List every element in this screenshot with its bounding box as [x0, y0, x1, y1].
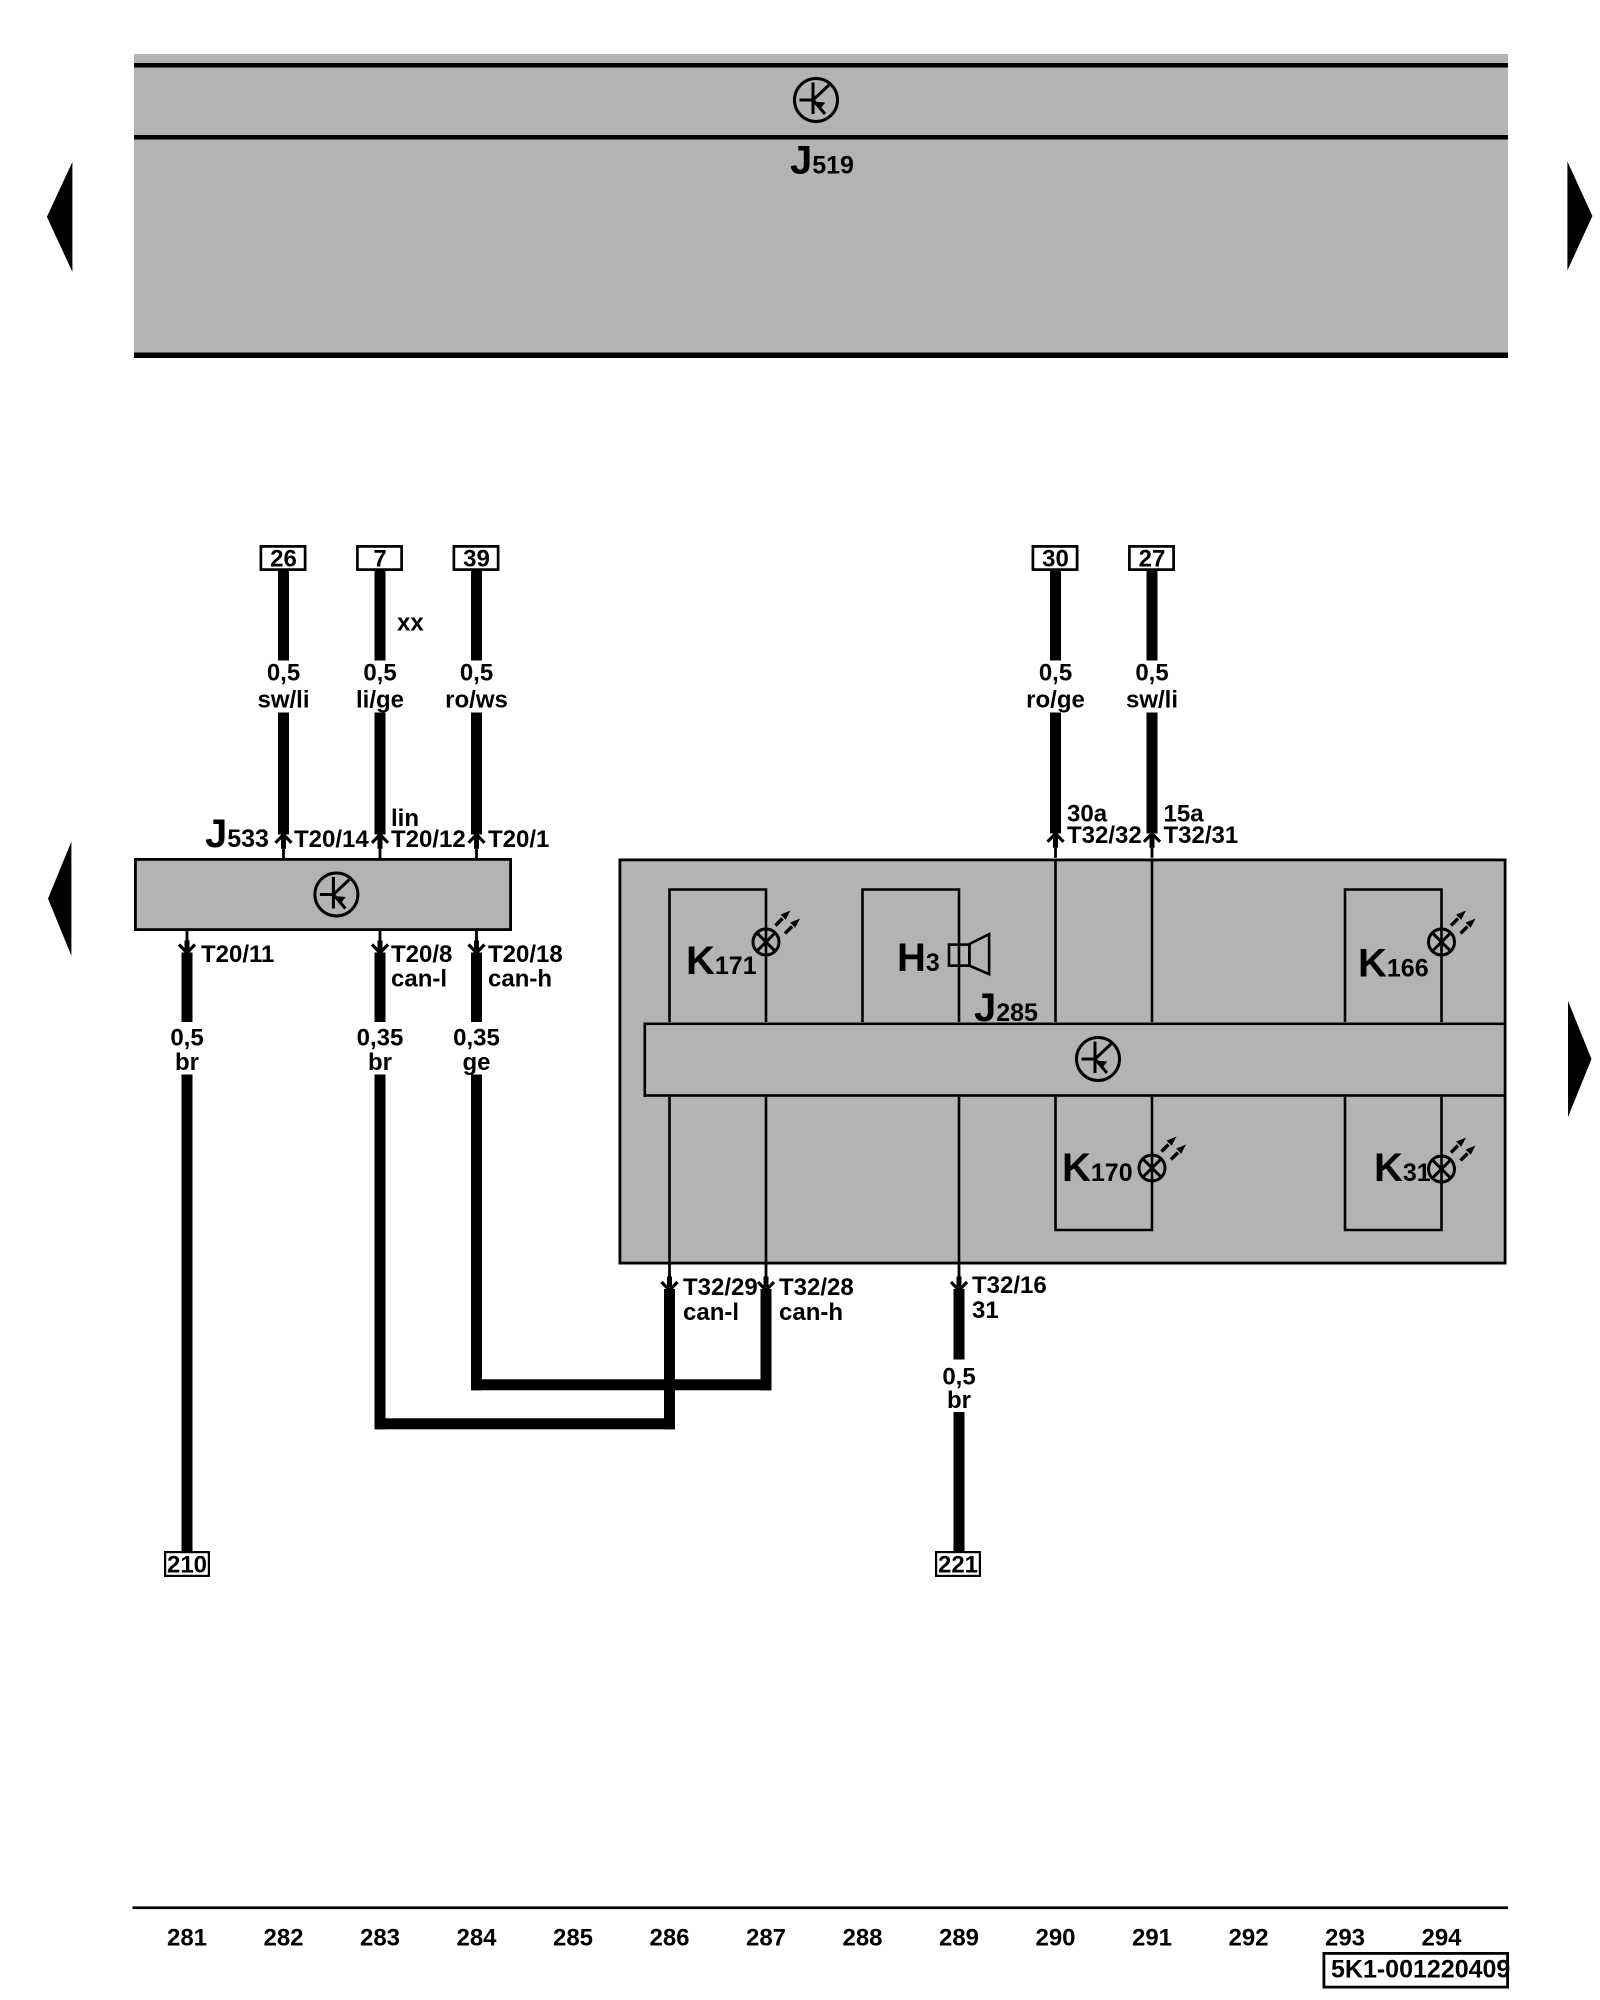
svg-text:282: 282 — [263, 1925, 303, 1952]
lamp K170 — [1139, 1137, 1186, 1182]
wire T32/16 upper segment — [954, 1289, 965, 1360]
control unit J533 body — [135, 859, 510, 929]
terminal box 26 — [261, 546, 305, 569]
J285 K symbol — [1077, 1038, 1120, 1081]
wire 27 upper segment — [1147, 571, 1158, 661]
wire from T32/31 inside J285 — [1151, 861, 1154, 1022]
J519 bottom border — [134, 353, 1508, 359]
svg-text:T32/28: T32/28 — [779, 1274, 854, 1301]
can-h horizontal run — [471, 1379, 772, 1390]
svg-text:288: 288 — [842, 1925, 882, 1952]
svg-text:27: 27 — [1139, 546, 1166, 573]
wire 39 upper segment — [471, 571, 482, 661]
wire 30 upper segment — [1050, 571, 1061, 661]
svg-text:0,5: 0,5 — [1135, 660, 1168, 687]
svg-text:292: 292 — [1228, 1925, 1268, 1952]
svg-text:0,5: 0,5 — [170, 1025, 203, 1052]
pin T32/29 — [662, 1265, 678, 1291]
J285 internal bus bar left edge — [644, 1023, 647, 1097]
pin T32/32 — [1048, 834, 1064, 858]
diagram id box — [1324, 1953, 1508, 1987]
svg-text:285: 285 — [553, 1925, 593, 1952]
svg-text:210: 210 — [167, 1552, 207, 1579]
wire T20/18 upper segment — [471, 953, 482, 1023]
wire 39 lower segment — [471, 713, 482, 835]
svg-text:br: br — [368, 1049, 392, 1076]
J285 internal bus bar bottom line — [644, 1094, 1507, 1097]
ground box 221 — [936, 1552, 980, 1576]
svg-text:T20/8: T20/8 — [391, 941, 452, 968]
page-continuation arrow mid-left — [48, 842, 71, 956]
control unit J519 body — [134, 54, 1508, 353]
svg-text:T20/18: T20/18 — [488, 941, 563, 968]
can-h riser to T32/28 — [761, 1289, 772, 1390]
svg-text:can-l: can-l — [683, 1299, 739, 1326]
svg-text:294: 294 — [1421, 1925, 1462, 1952]
terminal box 39 — [454, 546, 498, 569]
svg-text:ro/ge: ro/ge — [1026, 687, 1085, 714]
svg-text:J533: J533 — [205, 812, 269, 856]
page-continuation arrow mid-right — [1568, 1001, 1592, 1117]
pin T20/14 — [276, 835, 292, 859]
wire from T32/32 inside J285 — [1054, 861, 1057, 1022]
svg-text:0,5: 0,5 — [460, 660, 493, 687]
H3 frame — [863, 890, 960, 1023]
wire T20/8 can-l down segment — [375, 1075, 386, 1430]
wire T32/16 lower segment — [954, 1412, 965, 1551]
wire 7 lower segment — [375, 713, 386, 835]
K166 frame — [1345, 890, 1442, 1023]
svg-text:ge: ge — [462, 1049, 490, 1076]
pin T20/18 — [469, 931, 485, 953]
buzzer H3 symbol — [949, 945, 969, 966]
wire 7 upper segment — [375, 571, 386, 661]
svg-text:30: 30 — [1042, 546, 1069, 573]
page-continuation arrow top-right — [1567, 161, 1592, 270]
svg-text:0,5: 0,5 — [1039, 660, 1072, 687]
svg-text:290: 290 — [1035, 1925, 1075, 1952]
wire T20/11 upper segment — [182, 953, 193, 1023]
svg-text:291: 291 — [1132, 1925, 1172, 1952]
wire T20/11 long segment to 210 — [182, 1075, 193, 1552]
can-l riser to T32/29 — [664, 1289, 675, 1429]
svg-text:T20/12: T20/12 — [391, 826, 466, 853]
J533 K symbol — [315, 873, 358, 916]
svg-text:283: 283 — [360, 1925, 400, 1952]
svg-text:T20/11: T20/11 — [201, 941, 274, 968]
svg-text:T32/31: T32/31 — [1164, 822, 1239, 849]
wire 26 lower segment — [278, 713, 289, 835]
svg-text:can-h: can-h — [488, 966, 552, 993]
wire T20/18 can-h down segment — [471, 1075, 482, 1391]
wire T20/8 upper segment — [375, 953, 386, 1023]
ruler line — [133, 1906, 1509, 1909]
pin T20/11 — [179, 931, 195, 953]
svg-text:xx: xx — [397, 610, 424, 637]
svg-text:T20/14: T20/14 — [294, 826, 369, 853]
pin T20/1 — [469, 835, 485, 859]
svg-text:sw/li: sw/li — [257, 687, 309, 714]
svg-text:39: 39 — [463, 546, 490, 573]
svg-text:0,35: 0,35 — [453, 1025, 500, 1052]
svg-text:0,35: 0,35 — [357, 1025, 404, 1052]
control unit J285 body — [620, 860, 1505, 1263]
terminal box 27 — [1129, 546, 1173, 569]
svg-text:T32/16: T32/16 — [972, 1272, 1047, 1299]
K170 frame — [1056, 1097, 1153, 1230]
svg-text:can-h: can-h — [779, 1299, 843, 1326]
svg-text:31: 31 — [972, 1297, 999, 1324]
J285 internal bus bar top line — [644, 1023, 1507, 1026]
svg-text:li/ge: li/ge — [356, 687, 404, 714]
internal wire to T32/16 — [958, 1097, 961, 1263]
K171 frame — [670, 890, 767, 1023]
pin T20/8 — [372, 931, 388, 953]
svg-text:T32/32: T32/32 — [1067, 822, 1142, 849]
pin T20/12 — [372, 835, 388, 859]
ground box 210 — [165, 1552, 209, 1576]
svg-text:284: 284 — [456, 1925, 497, 1952]
pin T32/16 — [951, 1265, 967, 1291]
terminal box 30 — [1033, 546, 1077, 569]
terminal box 7 — [357, 546, 401, 569]
svg-text:T32/29: T32/29 — [683, 1274, 758, 1301]
svg-text:26: 26 — [270, 546, 297, 573]
K31 frame — [1345, 1097, 1442, 1230]
svg-text:sw/li: sw/li — [1126, 687, 1178, 714]
can-l horizontal run — [375, 1418, 676, 1429]
svg-text:0,5: 0,5 — [267, 660, 300, 687]
lamp K31 — [1429, 1138, 1476, 1183]
svg-text:287: 287 — [746, 1925, 786, 1952]
svg-text:br: br — [175, 1049, 199, 1076]
J519 inner line 2 — [134, 135, 1508, 140]
internal wire to T32/28 — [765, 1097, 768, 1263]
svg-text:289: 289 — [939, 1925, 979, 1952]
wire 26 upper segment — [278, 571, 289, 661]
pin T32/28 — [758, 1265, 774, 1291]
wire 30 lower segment — [1050, 713, 1061, 834]
svg-text:ro/ws: ro/ws — [445, 687, 508, 714]
wire 27 lower segment — [1147, 713, 1158, 834]
pin T32/31 — [1144, 834, 1160, 858]
lamp K171 — [753, 911, 800, 956]
internal wire to T32/29 — [668, 1097, 671, 1263]
J519 inner line 1 — [134, 63, 1508, 68]
svg-text:T20/1: T20/1 — [488, 826, 549, 853]
svg-text:293: 293 — [1325, 1925, 1365, 1952]
J519 K symbol — [795, 79, 838, 122]
svg-text:286: 286 — [649, 1925, 689, 1952]
svg-text:can-l: can-l — [391, 966, 447, 993]
svg-text:5K1-001220409: 5K1-001220409 — [1331, 1956, 1510, 1984]
page-continuation arrow top-left — [47, 162, 73, 272]
svg-text:7: 7 — [373, 546, 386, 573]
svg-text:221: 221 — [938, 1552, 978, 1579]
svg-text:0,5: 0,5 — [363, 660, 396, 687]
svg-text:br: br — [947, 1387, 971, 1414]
lamp K166 — [1429, 911, 1476, 956]
svg-text:281: 281 — [167, 1925, 207, 1952]
